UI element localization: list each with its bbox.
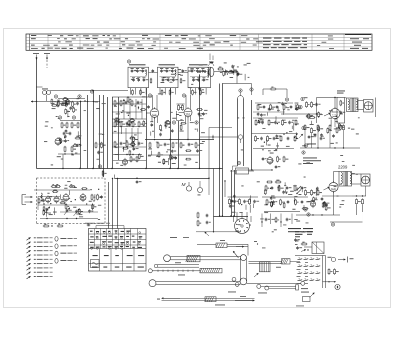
circled ref 3 bbox=[90, 90, 93, 93]
IF transformer Fi3 bbox=[188, 67, 211, 88]
capacitor C15 bbox=[188, 143, 191, 145]
capacitor C14 bbox=[164, 143, 167, 145]
transistor T7 bbox=[54, 197, 59, 202]
tube V2 bbox=[184, 109, 192, 117]
contact row cr4 bbox=[298, 280, 301, 282]
capacitor C46 bbox=[288, 121, 291, 123]
resistor R9 bbox=[95, 143, 97, 147]
wire w17 bbox=[352, 173, 362, 175]
legend symbol b2 bbox=[55, 244, 58, 249]
resistor R45 bbox=[282, 121, 284, 125]
pointer arrow pr1 bbox=[338, 259, 346, 261]
sine symbol cell bbox=[91, 260, 100, 268]
resistor R41 bbox=[255, 121, 257, 125]
component cluster fill AF right bbox=[277, 187, 278, 188]
resistor R5 bbox=[71, 123, 73, 127]
svg-text:M: M bbox=[182, 182, 186, 188]
resistor R19 bbox=[120, 122, 122, 126]
component cluster fill FM box bbox=[43, 211, 45, 215]
wire g1 bbox=[60, 120, 80, 122]
varicap VC2 bbox=[66, 209, 69, 211]
resistor R67 bbox=[311, 191, 313, 195]
components below box bbox=[44, 225, 48, 227]
capacitor C71 bbox=[233, 200, 236, 202]
dial scale block bbox=[187, 255, 200, 261]
capacitor C10 bbox=[137, 101, 140, 103]
transistor T4 bbox=[267, 158, 273, 164]
transistor T5 bbox=[310, 201, 315, 206]
vertical bus vb13 bbox=[231, 170, 233, 217]
resistor R15 bbox=[114, 101, 116, 105]
resistor R8 bbox=[71, 147, 73, 151]
varicap VC3 bbox=[75, 210, 78, 212]
vertical bus vb12 bbox=[222, 84, 224, 217]
tube V5 bbox=[329, 182, 338, 191]
switch table bbox=[89, 229, 147, 272]
tube V1 bbox=[150, 109, 159, 118]
resistor R79 bbox=[276, 181, 280, 183]
capacitor C83 bbox=[286, 187, 289, 189]
drive shaft run bbox=[162, 297, 181, 299]
resistor R25 bbox=[130, 157, 132, 161]
legend arrow a7 bbox=[27, 263, 31, 266]
bus wire w28 bbox=[295, 255, 326, 257]
resistor R57 bbox=[306, 103, 308, 107]
capacitor C35 bbox=[263, 106, 266, 108]
wire w24 bbox=[214, 216, 249, 218]
resistor R34 bbox=[257, 105, 259, 109]
resistor R1 bbox=[57, 102, 59, 106]
circled ref 20 bbox=[307, 213, 310, 216]
resistor R62 bbox=[343, 126, 345, 130]
resistor R65 bbox=[317, 126, 319, 130]
capacitor C73 bbox=[243, 200, 246, 202]
capacitor C19 bbox=[230, 70, 232, 73]
legend arrow a4 bbox=[27, 250, 31, 253]
capacitor C42 bbox=[261, 121, 264, 123]
wire to IF box bbox=[50, 90, 128, 92]
wire w30 bbox=[200, 136, 238, 138]
box K1 bbox=[236, 168, 249, 174]
component cluster fill output bbox=[330, 119, 332, 126]
socket leads bbox=[236, 212, 238, 221]
circled ref 5 bbox=[72, 116, 75, 119]
resistor R96 bbox=[302, 243, 306, 245]
potentiometer P1 bbox=[299, 134, 303, 138]
legend arrow a2 bbox=[27, 242, 31, 245]
power section wires bbox=[333, 192, 335, 215]
dial cord run 2 bbox=[158, 264, 200, 266]
capacitor C49 bbox=[260, 137, 263, 139]
wire g6 bbox=[264, 211, 300, 213]
capacitor C98 bbox=[147, 106, 150, 108]
left column components bbox=[198, 188, 203, 193]
scale plate bbox=[260, 262, 271, 272]
wire g7 bbox=[40, 218, 98, 220]
resistor R18 bbox=[114, 122, 116, 126]
indicator triode bbox=[238, 135, 242, 139]
wire w6 bbox=[236, 72, 238, 84]
resistor R64 bbox=[311, 129, 313, 133]
circled ref 21 bbox=[239, 89, 242, 92]
table text entries bbox=[31, 34, 36, 37]
circled ref 8 bbox=[182, 94, 185, 97]
resistor R40 bbox=[297, 105, 299, 109]
vertical bus vb2 bbox=[87, 95, 89, 169]
circled ref 15 bbox=[302, 151, 305, 154]
resistor R2 bbox=[72, 102, 74, 106]
wire w29 bbox=[323, 281, 337, 283]
capacitor C60 bbox=[321, 198, 324, 200]
tension bar bbox=[282, 259, 291, 264]
resistor R24 bbox=[132, 142, 134, 146]
value labels region 2 bbox=[156, 141, 159, 144]
circled ref 1 bbox=[54, 95, 57, 98]
AF cluster bottom drops bbox=[261, 214, 263, 228]
resistor R92 bbox=[91, 195, 93, 199]
oscillator coil L3 bbox=[209, 67, 214, 76]
resistor R94 bbox=[52, 186, 56, 188]
resistor R12 bbox=[182, 106, 184, 110]
legend arrow a9 bbox=[27, 272, 31, 275]
resistor R58 bbox=[311, 103, 313, 107]
lamp symbol bbox=[331, 257, 335, 261]
circled ref 10 bbox=[195, 121, 198, 124]
dial drive upper bar bbox=[216, 243, 227, 248]
circled ref 6 bbox=[127, 60, 130, 63]
vertical bus vb7 bbox=[146, 88, 148, 169]
label text rows bbox=[303, 157, 317, 160]
circled ref 16 bbox=[301, 97, 304, 100]
resistor R36 bbox=[270, 105, 272, 109]
contact row cr2 bbox=[298, 266, 301, 268]
dial cord run 3 bbox=[152, 270, 200, 272]
dial pulley P1 bbox=[164, 255, 171, 262]
text rows b1 bbox=[288, 228, 301, 229]
coil L1 bbox=[43, 91, 47, 95]
resistor R97 bbox=[328, 270, 330, 274]
resistor R38 bbox=[283, 105, 285, 109]
capacitor C57 bbox=[332, 135, 335, 137]
resistor R69 bbox=[303, 208, 307, 210]
resistor R60 bbox=[329, 126, 331, 130]
detector link wire bbox=[253, 111, 285, 113]
dial pulley P3 bbox=[240, 255, 246, 261]
wire loop w1 bbox=[177, 103, 185, 105]
wire w22 bbox=[237, 169, 273, 171]
dipole connector bbox=[21, 195, 23, 205]
resistor R48 bbox=[255, 137, 257, 141]
wire g2 bbox=[58, 153, 80, 155]
vertical bus vb17 bbox=[213, 169, 215, 232]
resistor R56 bbox=[283, 157, 285, 161]
vertical bus vb1 bbox=[80, 101, 82, 169]
resistor R98b bbox=[334, 270, 336, 274]
wire bus w23 bbox=[228, 196, 259, 198]
value labels region 6 bbox=[271, 218, 275, 221]
circled ref 4 bbox=[58, 116, 61, 119]
resistor R95 bbox=[70, 186, 74, 188]
capacitor C77 bbox=[136, 181, 139, 183]
resistor R63 bbox=[304, 126, 306, 130]
resistor R29 bbox=[172, 143, 174, 147]
FM box link wires bbox=[38, 196, 60, 198]
capacitor C2 bbox=[76, 102, 79, 104]
resistor R47 bbox=[295, 121, 297, 125]
IF transformer Fi2 bbox=[158, 67, 179, 88]
capacitor C16 bbox=[199, 70, 201, 73]
wire w5 bbox=[214, 71, 237, 73]
IF web link wires bbox=[112, 103, 146, 105]
legend arrow a3 bbox=[27, 246, 31, 249]
vertical bus vb14 bbox=[234, 170, 236, 217]
legend arrow a1 bbox=[27, 237, 31, 240]
capacitor C58 bbox=[314, 134, 317, 136]
dial pulley P4 bbox=[240, 278, 247, 285]
resistor R43 bbox=[268, 121, 270, 125]
contact row cr1 bbox=[298, 259, 301, 261]
capacitor C81 bbox=[271, 187, 274, 189]
resistor R61 bbox=[336, 128, 338, 132]
component cluster fill converter bbox=[236, 73, 239, 75]
legend symbol b1 bbox=[55, 237, 58, 242]
legend arrow a5 bbox=[27, 255, 31, 258]
resistor R13 bbox=[198, 109, 202, 111]
capacitor C11 bbox=[126, 122, 129, 124]
transistor T3 bbox=[122, 159, 127, 164]
indicator bottom hook bbox=[233, 165, 238, 167]
wire drop1 bbox=[62, 154, 64, 169]
capacitor C8 bbox=[159, 133, 162, 135]
resistor R4 bbox=[66, 123, 68, 127]
wire w13 bbox=[334, 98, 336, 109]
component cluster fill IF web bbox=[124, 147, 128, 149]
legend symbol b3 bbox=[55, 251, 58, 256]
dial cord run 6 bbox=[247, 282, 301, 284]
wire g5 bbox=[253, 148, 294, 150]
value text v1 bbox=[307, 143, 316, 146]
long wire w21 bbox=[115, 178, 210, 180]
varicap VC1 bbox=[46, 208, 49, 210]
resistor R82 bbox=[278, 186, 280, 190]
output tube V4 bbox=[330, 109, 340, 119]
legend arrow a6 bbox=[27, 259, 31, 262]
wire bus w3 bbox=[112, 118, 146, 120]
title/data table header bbox=[26, 34, 372, 50]
dial cord loop verticals bbox=[239, 258, 241, 281]
resistor R3 bbox=[61, 123, 63, 127]
resistor R52 bbox=[280, 137, 282, 141]
transformer Tr2 bbox=[339, 172, 352, 187]
component cluster fill AF driver bbox=[245, 205, 247, 210]
tube V1 pins bbox=[151, 117, 153, 123]
capacitor C4 bbox=[69, 132, 72, 134]
vertical pair vpr bbox=[322, 256, 324, 289]
capacitor C39 bbox=[290, 106, 293, 108]
resistor R66 bbox=[305, 191, 307, 195]
slanted bar bbox=[200, 268, 222, 273]
vertical bus vb8 bbox=[170, 88, 172, 169]
dial cord run 7 bbox=[261, 286, 296, 288]
ferrite antenna symbol bbox=[208, 62, 212, 67]
resistor R55 bbox=[277, 157, 279, 161]
wire bus w4 bbox=[145, 139, 214, 141]
capacitor C9 bbox=[125, 101, 128, 103]
inter-box coupling 1 bbox=[149, 72, 158, 74]
antenna terminal A2 bbox=[44, 53, 50, 55]
resistor R14 bbox=[160, 126, 162, 130]
capacitor C53 bbox=[287, 137, 290, 139]
dial pulley P2 bbox=[149, 280, 156, 287]
dial cord run 5 bbox=[249, 261, 282, 263]
contact row cr3 bbox=[298, 273, 301, 275]
circled ref 7 bbox=[148, 94, 151, 97]
FM tuner shield box bbox=[37, 177, 106, 179]
value labels region 9 bbox=[170, 81, 173, 84]
legend symbol b4 bbox=[55, 259, 58, 264]
IF box Fi1 leads bbox=[130, 88, 132, 95]
IF box Fi2 leads bbox=[159, 88, 161, 95]
resistor R88 bbox=[280, 200, 282, 204]
resistor R11 bbox=[178, 106, 180, 110]
resistor R32 bbox=[219, 68, 223, 70]
vertical bus vb10 bbox=[199, 75, 201, 169]
resistor R99 bbox=[170, 155, 172, 159]
wire bus w11 bbox=[252, 133, 299, 135]
misc marks af bbox=[254, 240, 257, 243]
vertical bus vb11 bbox=[219, 84, 221, 217]
resistor R74 bbox=[249, 200, 251, 204]
capacitor C51 bbox=[273, 137, 276, 139]
grid arrow 2 bbox=[324, 187, 330, 190]
resistor R16 bbox=[120, 101, 122, 105]
value labels region 4 bbox=[330, 142, 334, 145]
resistor R90 bbox=[295, 200, 297, 204]
loudspeaker LS1 bbox=[364, 100, 374, 113]
capacitor C1 bbox=[62, 102, 65, 104]
switch table top label bbox=[85, 222, 95, 225]
value labels region 8 bbox=[232, 65, 235, 68]
transistor T9 bbox=[80, 195, 86, 201]
wire bus w9 bbox=[255, 102, 293, 104]
magic eye indicator bbox=[237, 99, 239, 167]
wire bus w10 bbox=[253, 117, 298, 119]
wire w31 bbox=[209, 127, 232, 129]
transistor T1 bbox=[65, 100, 70, 105]
label text block bbox=[337, 90, 345, 93]
resistor R72 bbox=[239, 200, 241, 204]
label text block br bbox=[295, 231, 304, 232]
end stop bbox=[296, 285, 299, 290]
wire w8 bbox=[263, 88, 270, 90]
resistor R80 bbox=[265, 186, 267, 190]
main ground bus bbox=[37, 168, 223, 170]
vertical bus vb6 bbox=[118, 97, 120, 160]
transistor T2 bbox=[55, 139, 61, 145]
circled ref 13 bbox=[302, 126, 305, 129]
capacitor C37 bbox=[276, 106, 279, 108]
resistor R10 bbox=[101, 143, 103, 147]
resistor R17 bbox=[131, 101, 133, 105]
IF box Fi3 leads bbox=[190, 88, 192, 95]
dial pulley P5 bbox=[232, 277, 236, 281]
IF web vertical stubs bbox=[123, 99, 125, 119]
grid arrow bbox=[324, 113, 331, 116]
resistor R31 bbox=[195, 143, 197, 147]
antenna mast marks bbox=[209, 54, 211, 61]
dial cord run 4 bbox=[156, 281, 241, 283]
wire w16 bbox=[375, 98, 377, 118]
capacitor C91 bbox=[301, 201, 304, 203]
resistor R50 bbox=[267, 137, 269, 141]
wire bus w25 bbox=[262, 196, 308, 198]
primary choke box bbox=[337, 98, 345, 124]
coil L2 bbox=[208, 68, 209, 71]
capacitor C55 bbox=[262, 158, 265, 160]
capacitor C17 bbox=[204, 70, 206, 73]
capacitor C7 bbox=[202, 113, 205, 115]
wire drops to switch table bbox=[108, 182, 110, 229]
vertical bus vb3 bbox=[93, 90, 95, 169]
vertical bus vb16 bbox=[224, 181, 226, 197]
wire w20 bbox=[330, 221, 363, 223]
resistor R70 bbox=[229, 200, 231, 204]
relay K2 bbox=[312, 242, 324, 254]
loudspeaker LS2 bbox=[361, 174, 370, 186]
dial pulley P8 bbox=[265, 286, 269, 290]
bottom marks bbox=[301, 287, 308, 290]
circled ref 18 bbox=[331, 223, 334, 226]
output stage drops bbox=[304, 131, 306, 148]
capacitor C85 bbox=[301, 187, 304, 189]
circled ref 9 bbox=[172, 121, 175, 124]
resistor R20 bbox=[132, 122, 134, 126]
tube V2 leads bbox=[185, 95, 187, 109]
capacitor C87 bbox=[272, 201, 275, 203]
circled ref 12 bbox=[285, 98, 288, 101]
vertical bus vb5 bbox=[112, 97, 114, 169]
legend arrow a8 bbox=[27, 268, 31, 271]
wire bus w15 bbox=[300, 147, 360, 149]
circled ref 2 bbox=[78, 95, 81, 98]
capacitor C75 bbox=[253, 200, 256, 202]
rectifier cluster bbox=[356, 200, 358, 204]
wire g4 bbox=[148, 154, 199, 156]
tube V1 leads bbox=[151, 95, 153, 110]
wire w7 bbox=[199, 74, 201, 95]
antenna terminal A1 bbox=[33, 53, 39, 55]
resistor R30 bbox=[180, 143, 182, 147]
switch table jumper bbox=[95, 226, 97, 229]
resistor R7 bbox=[64, 147, 66, 151]
value labels region 3 bbox=[261, 145, 264, 148]
IF transformer Fi1 bbox=[128, 67, 149, 88]
dial scale ticks bbox=[157, 270, 159, 272]
coil L4 bbox=[41, 193, 42, 195]
dial pointer arrow bbox=[233, 251, 239, 258]
component cluster fill AM front end bbox=[63, 99, 67, 101]
capacitor C92 bbox=[100, 196, 103, 198]
vertical bus vb18 bbox=[103, 95, 105, 177]
resistor R54 bbox=[294, 137, 296, 141]
resistor R33 bbox=[271, 88, 275, 90]
resistor R6 bbox=[77, 123, 79, 127]
vertical bus vb15 bbox=[251, 100, 253, 170]
wire w26 bbox=[34, 189, 90, 191]
resistor R84 bbox=[294, 186, 296, 190]
misc text t1 bbox=[170, 236, 177, 239]
dial pulley P6 bbox=[235, 283, 239, 287]
